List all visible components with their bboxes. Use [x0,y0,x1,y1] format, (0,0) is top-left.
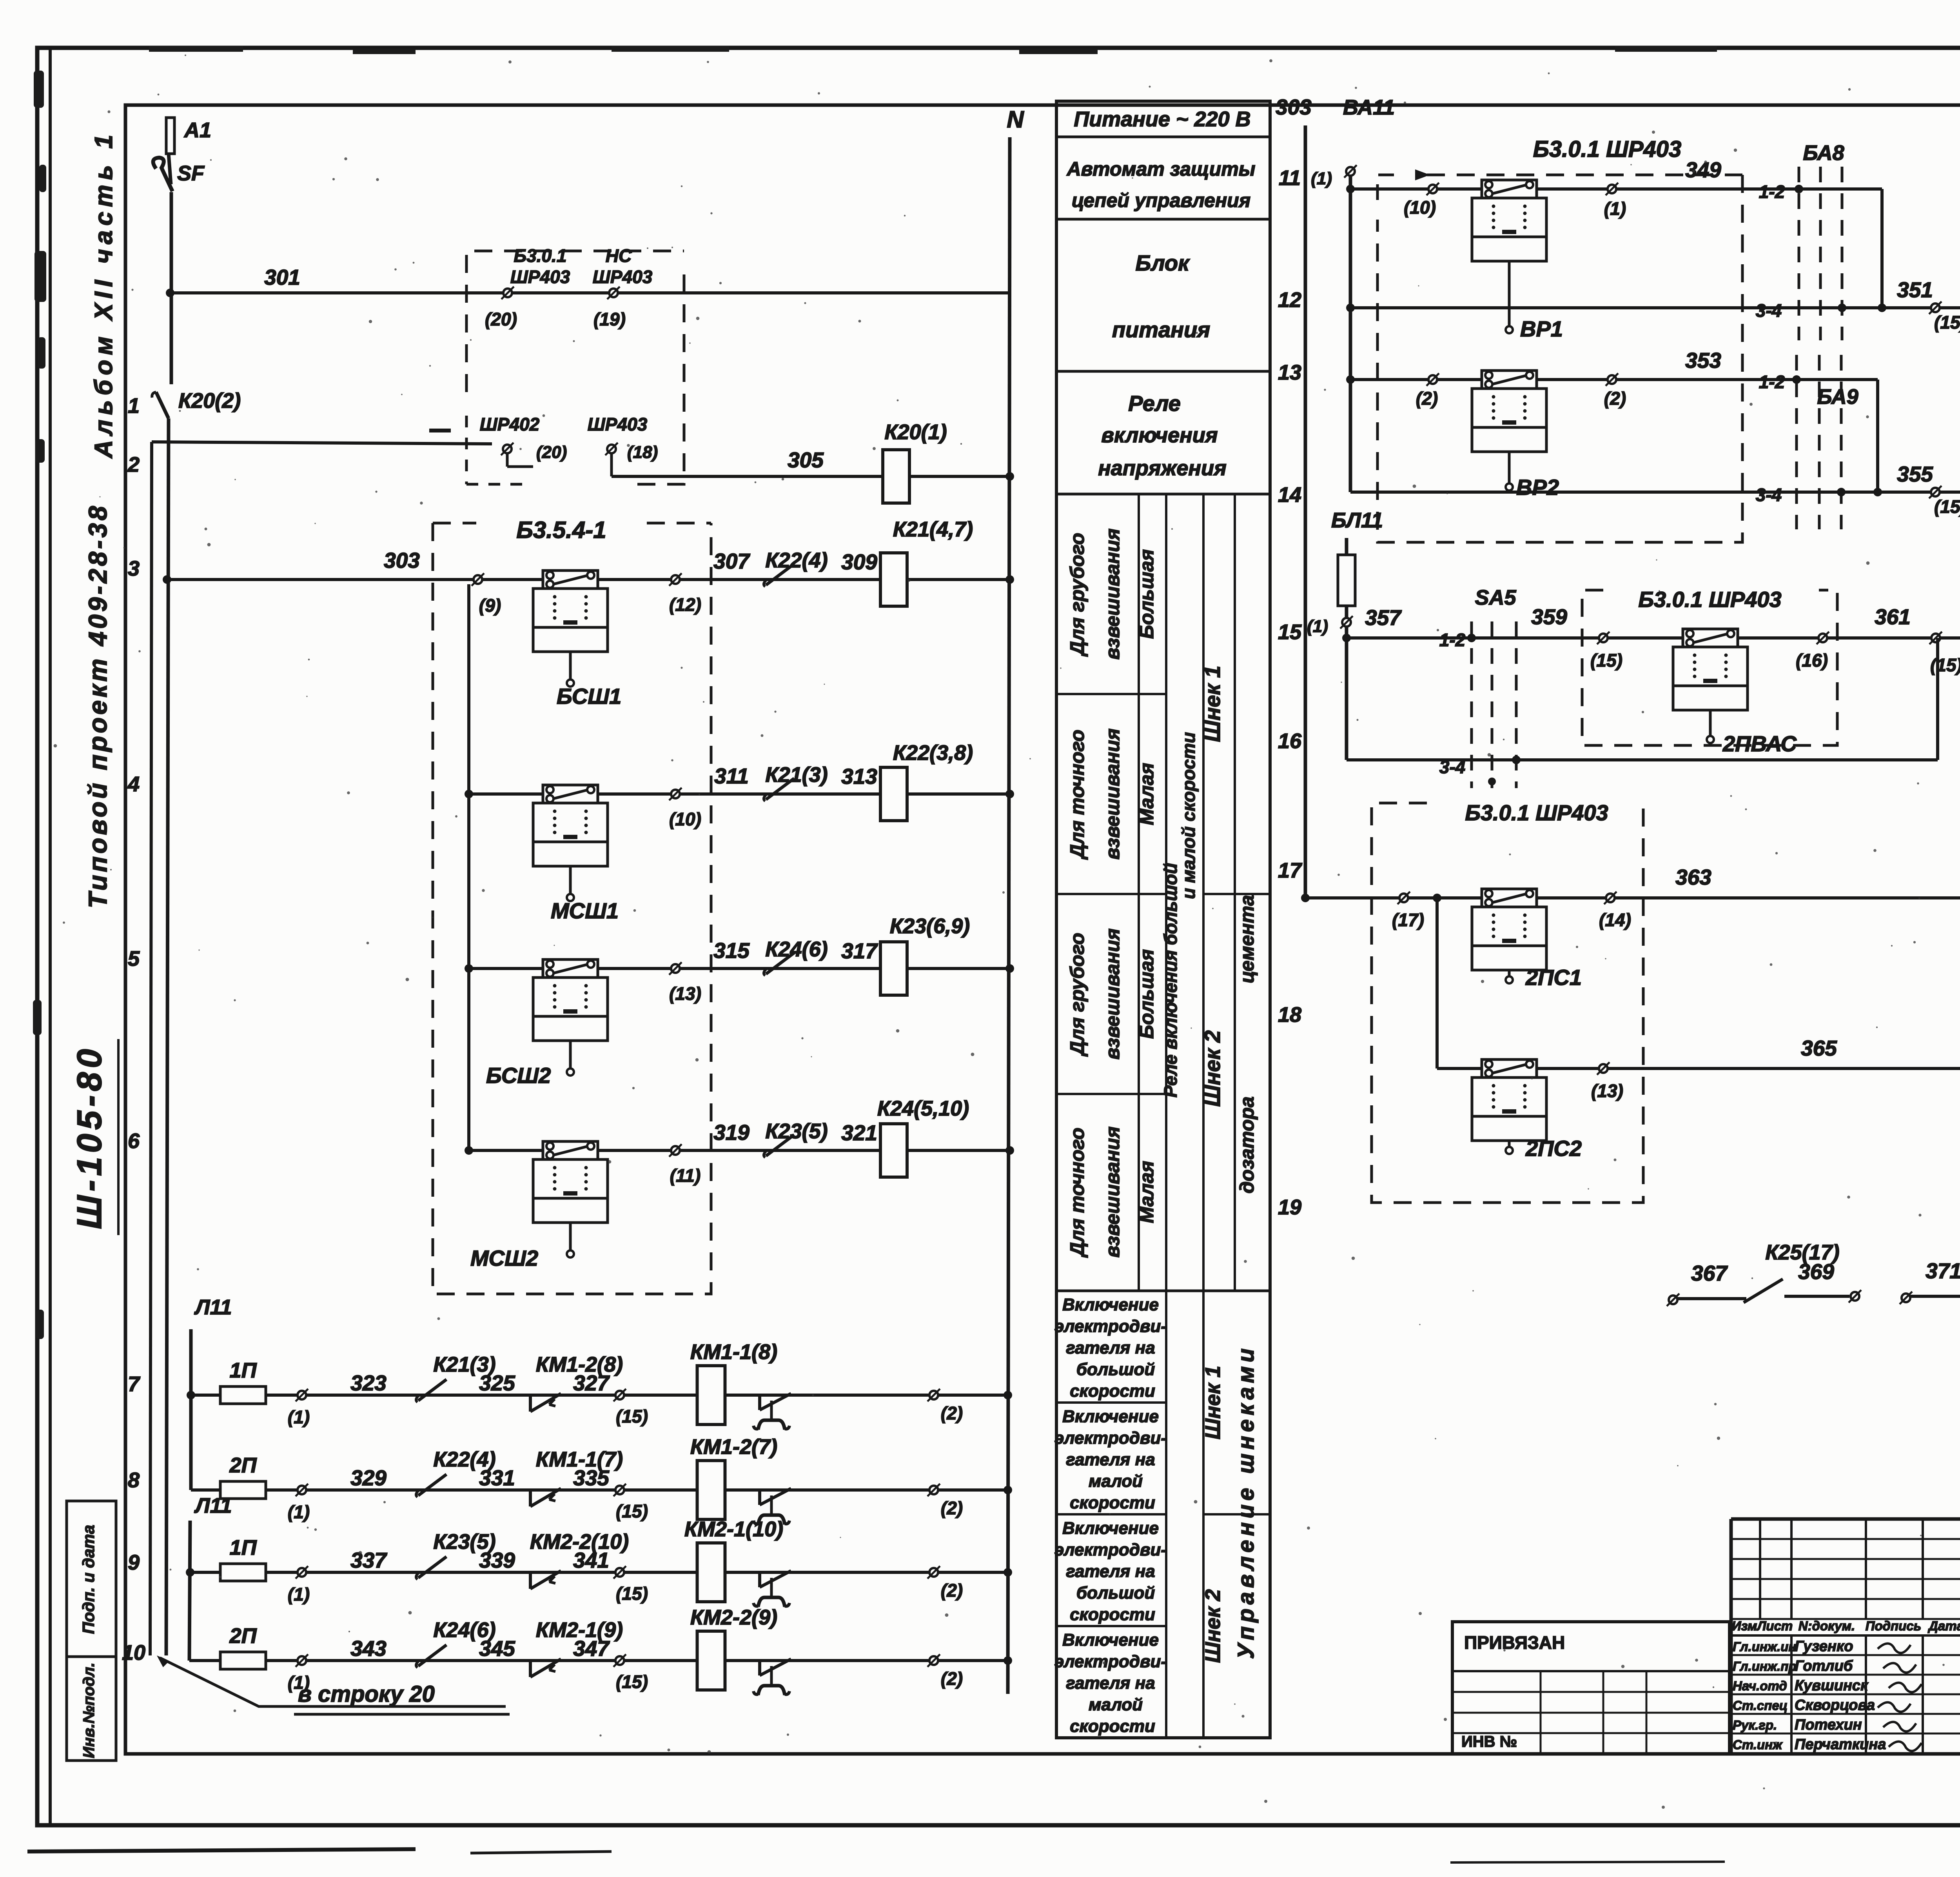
contact K21(3) row4 [766,778,794,799]
row9 circuit: fuse 1П, 337, K23(5), 339, КМ2-2(10), 341, coil КМ2-1(10) [190,1571,1008,1574]
wire row11 349 [1350,187,1882,191]
svg-text:327: 327 [573,1371,610,1395]
svg-text:(2): (2) [941,1498,963,1518]
svg-text:Для точного: Для точного [1066,730,1088,860]
vertical join row17-row18 [1436,898,1439,1068]
svg-text:1-2: 1-2 [1759,372,1785,392]
svg-text:скорости: скорости [1070,1605,1155,1624]
svg-text:18: 18 [1278,1003,1301,1027]
svg-text:Большая: Большая [1136,549,1158,639]
svg-text:Л11: Л11 [194,1296,232,1319]
weigher contact БСШ1 [543,571,598,589]
svg-text:311: 311 [714,764,749,788]
pressure switch ВР1 [1482,180,1537,198]
svg-text:13: 13 [1278,361,1301,384]
wire row18 365 [1437,1067,1960,1070]
wire row2 to connectors [152,442,492,444]
svg-text:Альбом ХII часть 1: Альбом ХII часть 1 [89,130,118,459]
svg-text:(10): (10) [1404,197,1436,218]
left supply bus (vertical) [170,192,173,384]
svg-text:Шнек 1: Шнек 1 [1200,666,1225,742]
weigher contact МСШ1 [543,785,598,803]
svg-text:Б3.0.1 ШР403: Б3.0.1 ШР403 [1533,136,1681,162]
svg-text:Гл.инж.пр: Гл.инж.пр [1733,1659,1797,1673]
svg-text:5: 5 [128,947,140,970]
svg-text:ИНВ №: ИНВ № [1461,1733,1517,1750]
svg-text:325: 325 [479,1371,515,1395]
pressure switch ВР2 [1482,371,1537,389]
header Изм Лист Nдокум Подпись Дата [1731,1634,1960,1637]
row10 circuit: fuse 2П, 343, K24(6), 345, КМ2-1(9), 347, coil КМ2-2(9) [189,1659,1008,1662]
svg-text:7: 7 [128,1372,141,1396]
wire row4 [469,792,1010,796]
dashed box Б3.0.1 ШР403 middle [1582,590,1837,745]
svg-text:(15): (15) [1934,496,1960,517]
svg-text:гателя на: гателя на [1066,1450,1155,1469]
corner row13 to row14 [1876,380,1879,492]
box ПРИВЯЗАН [1452,1622,1730,1754]
border ink blobs left edge [34,71,44,108]
svg-text:(2): (2) [941,1580,963,1601]
wire row16 3-4 return [1347,758,1938,761]
feeder vertical inside box [467,584,470,1150]
svg-text:1П: 1П [230,1536,257,1559]
contact K22(4) row3 [766,564,794,585]
pressure switch 2ПВАС [1683,629,1738,647]
svg-text:369: 369 [1798,1259,1834,1284]
svg-text:3: 3 [128,557,140,580]
svg-text:электродви-: электродви- [1054,1540,1167,1559]
svg-text:345: 345 [479,1636,515,1661]
wire 303 row3 [166,578,1010,581]
svg-text:365: 365 [1801,1036,1837,1060]
svg-text:(13): (13) [1591,1081,1623,1101]
svg-text:15: 15 [1278,620,1302,644]
dashed box БЗ.0.1 ШР403 upper [1377,175,1396,200]
contact K23(5) row6 [766,1135,794,1156]
svg-text:(2): (2) [1604,388,1626,409]
svg-text:БСШ2: БСШ2 [486,1063,551,1088]
svg-text:большой: большой [1076,1583,1155,1603]
svg-text:SA5: SA5 [1475,586,1516,609]
svg-text:12: 12 [1278,288,1301,312]
svg-text:2ПС2: 2ПС2 [1525,1136,1582,1161]
svg-text:гателя на: гателя на [1066,1673,1155,1693]
svg-text:взвешивания: взвешивания [1102,529,1123,660]
connector (11) row6 [671,1146,680,1155]
svg-text:Б3.0.1: Б3.0.1 [514,245,567,266]
connector (19) on wire 301 [609,289,618,297]
svg-text:Питание ~ 220 В: Питание ~ 220 В [1074,107,1250,131]
svg-text:Б3.0.1 ШР403: Б3.0.1 ШР403 [1465,800,1608,825]
svg-text:ПРИВЯЗАН: ПРИВЯЗАН [1464,1632,1565,1653]
connector (10) row4 [671,790,680,798]
svg-text:Для точного: Для точного [1066,1128,1088,1258]
svg-text:ШР403: ШР403 [588,414,648,434]
svg-text:гателя на: гателя на [1066,1338,1155,1357]
dashed box Б3.0.1 ШР403 lower [1372,803,1646,1203]
svg-text:(15): (15) [1934,312,1960,333]
svg-text:К20(1): К20(1) [884,420,947,444]
svg-text:КМ2-1(10): КМ2-1(10) [684,1517,783,1541]
svg-text:Шнек 1: Шнек 1 [1201,1366,1225,1439]
svg-text:БЛ11: БЛ11 [1331,509,1383,532]
title block revision grid [1731,1538,1960,1540]
svg-text:307: 307 [713,549,750,573]
svg-text:К22(3,8): К22(3,8) [893,741,973,765]
svg-text:2П: 2П [229,1454,257,1477]
svg-text:(15): (15) [616,1501,648,1521]
svg-text:Инв.№подл.: Инв.№подл. [80,1663,98,1758]
svg-text:(16): (16) [1796,650,1828,670]
svg-text:Гузенко: Гузенко [1795,1638,1853,1655]
svg-text:9: 9 [128,1551,140,1574]
svg-text:(1): (1) [1604,198,1626,219]
svg-text:К23(5): К23(5) [765,1119,828,1143]
svg-text:(19): (19) [593,309,626,329]
svg-text:Малая: Малая [1136,1161,1158,1223]
svg-text:14: 14 [1278,483,1301,507]
svg-text:НС: НС [606,245,632,266]
pressure switch 2ПС2 [1482,1059,1537,1078]
connector (9) on row3 [474,575,482,584]
svg-text:взвешивания: взвешивания [1102,729,1123,859]
svg-text:(2): (2) [941,1403,963,1423]
svg-text:и малой скорости: и малой скорости [1178,732,1199,899]
svg-text:11: 11 [1279,166,1301,190]
svg-text:17: 17 [1278,859,1303,882]
svg-text:ВА11: ВА11 [1343,96,1395,119]
svg-text:(15): (15) [616,1583,648,1604]
svg-text:355: 355 [1897,462,1933,486]
svg-text:ШР403: ШР403 [510,267,570,287]
svg-text:(15): (15) [1930,655,1960,675]
svg-text:Для грубого: Для грубого [1066,933,1088,1057]
svg-text:319: 319 [713,1120,750,1145]
svg-text:А1: А1 [183,118,211,142]
contact K24(6) row5 [766,953,794,974]
dashed box ШР402/ШР403 connectors [466,251,684,392]
svg-text:N:докум.: N:докум. [1798,1619,1855,1633]
left supply bus lower part [166,418,169,1655]
svg-text:дозатора: дозатора [1236,1096,1258,1193]
wire 305 row2 [612,475,1010,478]
svg-text:349: 349 [1685,158,1721,182]
fuse A1 [166,118,174,154]
svg-text:электродви-: электродви- [1054,1317,1167,1336]
svg-text:323: 323 [350,1371,387,1395]
svg-text:1П: 1П [230,1359,257,1382]
svg-text:БА8: БА8 [1803,141,1844,165]
svg-text:Включение: Включение [1062,1407,1159,1426]
svg-text:К21(4,7): К21(4,7) [893,518,973,541]
bottom scan edge broken line [27,1849,416,1852]
svg-text:19: 19 [1278,1196,1301,1219]
svg-text:3-4: 3-4 [1439,757,1465,777]
svg-text:(20): (20) [485,309,517,329]
outer border left inner double line [49,49,52,1824]
connector (13) row5 [671,964,680,973]
svg-text:Управление шнеками: Управление шнеками [1233,1345,1259,1659]
svg-text:1: 1 [128,394,140,418]
wire row15 357-359-361 [1347,636,1960,640]
svg-text:Типовой проект 409-28-38: Типовой проект 409-28-38 [83,503,112,909]
svg-text:электродви-: электродви- [1054,1652,1167,1671]
svg-text:3-4: 3-4 [1756,485,1782,505]
svg-text:большой: большой [1076,1360,1155,1379]
svg-text:2ПС1: 2ПС1 [1525,965,1582,990]
svg-text:электродви-: электродви- [1054,1428,1167,1448]
svg-text:Включение: Включение [1062,1295,1159,1314]
contact K20(2) in bus [156,392,169,418]
svg-text:скорости: скорости [1070,1381,1155,1401]
svg-text:4: 4 [127,772,140,796]
svg-text:Кувшинск: Кувшинск [1795,1677,1869,1694]
svg-text:малой: малой [1089,1472,1143,1491]
switch SF [153,158,172,191]
svg-text:(11): (11) [670,1165,701,1186]
svg-text:313: 313 [841,764,877,789]
svg-text:включения: включения [1101,423,1218,447]
weigher contact БСШ2 [543,959,598,978]
svg-text:цемента: цемента [1236,895,1258,983]
svg-text:2П: 2П [229,1624,257,1648]
svg-text:(15): (15) [616,1672,648,1692]
svg-text:ВР1: ВР1 [1520,316,1563,341]
svg-text:343: 343 [350,1636,387,1661]
svg-text:1-2: 1-2 [1439,630,1466,650]
svg-text:КМ1-2(7): КМ1-2(7) [690,1435,777,1459]
svg-text:Изм: Изм [1732,1619,1757,1633]
svg-text:К24(5,10): К24(5,10) [877,1097,969,1120]
svg-text:Дата: Дата [1927,1619,1960,1633]
svg-text:3-4: 3-4 [1756,300,1782,321]
svg-text:303: 303 [1276,95,1312,119]
svg-text:Потехин: Потехин [1795,1717,1862,1733]
svg-text:2ПВАС: 2ПВАС [1722,731,1797,756]
svg-text:335: 335 [573,1466,610,1490]
svg-text:напряжения: напряжения [1098,456,1227,480]
svg-text:Рук.гр.: Рук.гр. [1733,1718,1777,1732]
svg-text:351: 351 [1897,278,1933,302]
svg-text:329: 329 [350,1466,387,1490]
svg-text:ШР403: ШР403 [593,267,653,287]
vertical join row15-row16 [1936,638,1939,760]
svg-text:301: 301 [264,265,300,289]
row7 circuit: fuse 1П, 323, K21(3), 325, КМ1-2(8), 327, coil КМ1-1(8) [191,1394,1008,1397]
corner bus303 to row17 [1301,894,1310,902]
svg-text:Малая: Малая [1136,763,1158,825]
svg-text:(17): (17) [1392,910,1424,930]
left margin stamp box Подп. и дата / Инв. № подл. [67,1501,116,1761]
svg-text:(14): (14) [1599,910,1631,930]
svg-text:в строку 20: в строку 20 [298,1681,435,1707]
svg-text:367: 367 [1691,1261,1728,1285]
pressure switch 2ПС1 [1482,889,1537,907]
svg-text:(1): (1) [1307,617,1328,636]
leader to line 20 [160,1658,506,1706]
svg-text:305: 305 [788,448,824,472]
svg-text:ВР2: ВР2 [1516,475,1559,500]
svg-text:Включение: Включение [1062,1630,1159,1650]
svg-text:(1): (1) [288,1584,310,1604]
svg-text:цепей управления: цепей управления [1072,189,1250,211]
svg-text:315: 315 [713,938,750,963]
wire row13 353 [1350,378,1878,381]
svg-text:скорости: скорости [1070,1717,1155,1736]
svg-text:353: 353 [1685,348,1721,372]
wire 301 row1 [170,291,1010,294]
svg-text:(15): (15) [1590,650,1622,670]
svg-text:Шнек 2: Шнек 2 [1200,1030,1225,1107]
svg-text:КМ2-2(9): КМ2-2(9) [690,1606,777,1629]
svg-text:Реле включения большой: Реле включения большой [1160,863,1181,1097]
svg-text:2: 2 [127,453,140,476]
svg-text:(2): (2) [941,1668,963,1689]
connector (12) row3 [671,575,680,584]
svg-text:(13): (13) [669,983,701,1004]
svg-text:К24(6): К24(6) [765,938,828,961]
middle function table grid [1056,101,1270,1738]
svg-text:Подпись: Подпись [1866,1619,1922,1633]
svg-text:гателя на: гателя на [1066,1562,1155,1581]
svg-text:321: 321 [841,1121,877,1145]
svg-text:317: 317 [841,939,878,963]
svg-text:БА9: БА9 [1817,385,1858,409]
svg-text:Большая: Большая [1136,949,1158,1039]
svg-text:Готлиб: Готлиб [1795,1658,1853,1674]
small dash mark [429,429,451,432]
svg-text:(10): (10) [669,809,701,829]
svg-text:347: 347 [573,1636,610,1661]
svg-text:(1): (1) [288,1407,310,1427]
second vertical bus [150,442,152,1655]
wire row12 351 [1350,306,1960,309]
corner row11 to row12 [1880,189,1884,308]
svg-text:Ш-105-80: Ш-105-80 [70,1045,109,1229]
svg-text:скорости: скорости [1070,1493,1155,1512]
svg-text:339: 339 [479,1548,515,1572]
svg-text:359: 359 [1531,605,1567,629]
svg-text:МСШ2: МСШ2 [470,1246,538,1270]
svg-text:Перчаткина: Перчаткина [1795,1736,1886,1753]
svg-text:309: 309 [841,550,877,574]
svg-text:8: 8 [128,1468,140,1492]
svg-text:(12): (12) [669,594,701,615]
svg-text:ШР402: ШР402 [480,414,540,434]
svg-text:371: 371 [1926,1259,1960,1283]
svg-text:БСШ1: БСШ1 [557,684,621,709]
svg-text:357: 357 [1365,605,1402,630]
svg-text:16: 16 [1278,729,1302,753]
svg-text:Автомат защиты: Автомат защиты [1066,158,1256,180]
svg-text:337: 337 [350,1548,387,1572]
svg-text:10: 10 [122,1641,145,1664]
svg-text:Ст.спец: Ст.спец [1733,1698,1788,1713]
connector (20) on wire 301 [503,289,512,297]
dashed box Б3.5.4-1 [433,523,711,1294]
svg-text:К20(2): К20(2) [178,389,241,412]
svg-text:Нач.отд: Нач.отд [1733,1679,1787,1693]
svg-text:КМ1-1(8): КМ1-1(8) [690,1340,777,1364]
wire row5 [469,967,1010,970]
svg-text:К22(4): К22(4) [765,549,828,572]
svg-text:малой: малой [1089,1695,1143,1714]
signature rows [1731,1654,1960,1656]
svg-text:(2): (2) [1416,388,1438,409]
svg-text:Ст.инж: Ст.инж [1733,1737,1783,1752]
title block outline [1731,1517,1960,1521]
svg-text:взвешивания: взвешивания [1102,1127,1123,1257]
svg-text:1-2: 1-2 [1759,182,1785,202]
svg-text:Б3.5.4-1: Б3.5.4-1 [516,517,606,543]
wire row14 355 [1350,491,1960,494]
svg-text:Реле: Реле [1128,391,1181,416]
svg-text:361: 361 [1875,605,1911,629]
row8 circuit: fuse 2П, 329, K22(4), 331, КМ1-1(7), 335, coil КМ1-2(7) [191,1488,1008,1492]
svg-text:303: 303 [384,548,420,572]
svg-text:SF: SF [177,162,205,185]
svg-text:взвешивания: взвешивания [1102,929,1123,1059]
vertical dividers name rows [1790,1635,1793,1754]
svg-text:(18): (18) [627,443,658,462]
svg-text:Лист: Лист [1757,1619,1793,1633]
svg-text:341: 341 [573,1548,609,1572]
svg-text:(1): (1) [1311,169,1332,188]
svg-text:363: 363 [1675,865,1711,889]
wire row6 [469,1149,1010,1152]
svg-text:Включение: Включение [1062,1519,1159,1538]
svg-text:(9): (9) [479,595,501,616]
svg-text:Для грубого: Для грубого [1066,533,1088,657]
svg-text:питания: питания [1112,317,1210,342]
svg-text:Гл.инж.ин: Гл.инж.ин [1733,1639,1796,1654]
svg-text:К23(6,9): К23(6,9) [890,914,970,938]
top border ink patches [149,46,243,52]
svg-text:N: N [1007,106,1024,133]
svg-text:Шнек 2: Шнек 2 [1201,1589,1225,1663]
svg-text:Скворцова: Скворцова [1795,1697,1875,1713]
wire row17 363 [1305,896,1960,899]
svg-text:(15): (15) [616,1406,648,1426]
svg-text:331: 331 [479,1466,515,1490]
weigher contact МСШ2 [543,1141,598,1159]
svg-text:6: 6 [128,1129,140,1153]
svg-text:(20): (20) [536,443,567,462]
svg-text:Блок: Блок [1135,251,1190,275]
svg-text:Подп. и дата: Подп. и дата [79,1525,98,1634]
svg-text:МСШ1: МСШ1 [551,898,619,923]
svg-text:(1): (1) [288,1502,310,1522]
svg-text:К21(3): К21(3) [765,763,828,787]
